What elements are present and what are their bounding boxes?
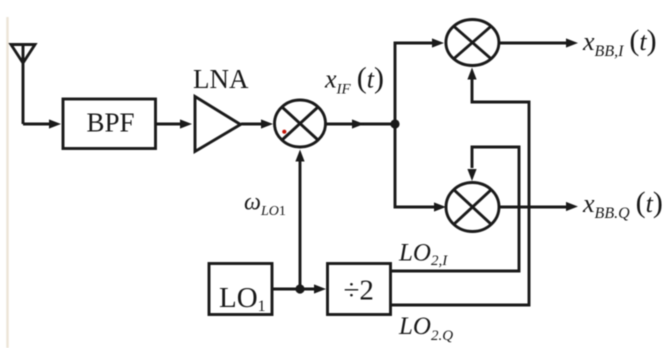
svg-text:BPF: BPF bbox=[87, 108, 135, 138]
red speck bbox=[282, 130, 286, 134]
svg-text:÷2: ÷2 bbox=[344, 275, 374, 307]
mixer M1 bbox=[275, 100, 326, 147]
svg-text:LNA: LNA bbox=[193, 64, 249, 94]
wire BPF to LNA bbox=[156, 123, 182, 126]
oscillator LO1 box bbox=[209, 264, 272, 315]
arrowhead mid wire bbox=[352, 119, 364, 128]
wire LO2Q feed to M2 bottom bbox=[391, 79, 530, 305]
mixer M3 bbox=[446, 183, 499, 232]
wire LO node up to mixer M1 bbox=[299, 161, 302, 289]
antenna bbox=[11, 45, 35, 125]
arrowhead into divider bbox=[314, 284, 326, 293]
BPF box bbox=[63, 99, 156, 149]
arrowhead into mixer M2 bbox=[432, 38, 444, 47]
arrowhead into LNA bbox=[180, 119, 192, 128]
wire node up to mixer M2 bbox=[395, 43, 433, 124]
arrowhead output Q bbox=[566, 202, 578, 211]
wire mixer M1 to node bbox=[325, 123, 395, 126]
mixer M2 bbox=[446, 20, 499, 66]
arrowhead into mixer M3 bbox=[434, 202, 446, 211]
arrowhead up into M1 bbox=[295, 150, 304, 162]
arrowhead into BPF bbox=[49, 119, 61, 128]
wire LNA to mixer bbox=[241, 123, 262, 126]
wire node down to mixer M3 bbox=[395, 124, 434, 207]
wire M3 output bbox=[499, 206, 568, 209]
svg-text:LO1: LO1 bbox=[219, 282, 266, 315]
svg-text:ωLO1: ωLO1 bbox=[244, 190, 286, 220]
wire M2 output bbox=[499, 42, 568, 45]
arrowhead up into M2 bbox=[467, 68, 476, 80]
wire LO1 to divider bbox=[272, 288, 314, 291]
svg-text:LO2.Q: LO2.Q bbox=[398, 313, 453, 344]
amplifier LNA bbox=[195, 97, 241, 152]
arrowhead into mixer M1 bbox=[261, 119, 273, 128]
svg-text:LO2,I: LO2,I bbox=[398, 240, 448, 270]
svg-text:xBB,I (t): xBB,I (t) bbox=[582, 24, 657, 60]
svg-text:xIF (t): xIF (t) bbox=[324, 62, 384, 98]
divider box bbox=[328, 264, 391, 315]
wire antenna to BPF bbox=[23, 123, 50, 126]
scan artifact line bbox=[6, 17, 8, 348]
svg-text:xBB.Q (t): xBB.Q (t) bbox=[582, 186, 663, 222]
arrowhead output I bbox=[566, 38, 578, 47]
wire LO2I feed to M3 top bbox=[391, 147, 520, 271]
node junction LO bbox=[295, 284, 304, 293]
arrowhead down into M3 bbox=[467, 169, 476, 181]
node junction bbox=[390, 119, 399, 128]
